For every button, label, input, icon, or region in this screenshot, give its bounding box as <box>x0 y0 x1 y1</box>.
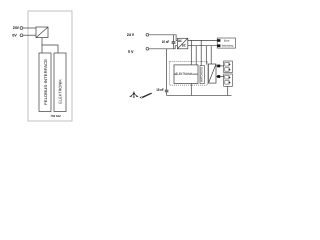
wire drop to electronics 2 <box>195 46 197 65</box>
svg-text:10 nF: 10 nF <box>156 88 164 92</box>
wire to data contact B <box>216 76 224 78</box>
terminal 24V <box>20 27 23 30</box>
data contact B <box>217 75 220 78</box>
wire 0V to supply <box>23 34 36 36</box>
data coupling box A <box>224 61 233 73</box>
svg-text:FELDBUS-INTERFACE: FELDBUS-INTERFACE <box>43 58 48 104</box>
svg-text:Weiterleitung: Weiterleitung <box>222 44 234 47</box>
power jumper contact box <box>217 38 235 48</box>
svg-text:750 612: 750 612 <box>50 114 61 118</box>
wire drop 4 <box>205 46 207 65</box>
capacitor C1 10nF between rails <box>172 35 176 49</box>
power supply unit U1 <box>36 27 48 38</box>
data contact A <box>217 65 220 68</box>
system DC/DC converter U3 <box>209 64 217 83</box>
svg-text:DC: DC <box>178 39 182 43</box>
wire drop to system converter <box>210 46 212 64</box>
power contact 0V <box>217 44 220 47</box>
watchdog block <box>200 66 204 84</box>
carrier rail symbol <box>140 93 153 99</box>
electronics dashed enclosure <box>170 61 208 85</box>
wire drop to electronics 1 <box>190 40 192 65</box>
terminal 0 V <box>146 47 149 50</box>
terminal 24 V <box>146 33 149 36</box>
earth ground symbol <box>130 91 139 97</box>
wire to data contact A <box>216 65 224 67</box>
svg-text:10 nF: 10 nF <box>162 40 170 44</box>
svg-text:ELEKTRONIK: ELEKTRONIK <box>57 79 62 104</box>
svg-text:24V: 24V <box>13 26 20 30</box>
wire electronics to earth rail <box>190 84 192 96</box>
electronics block <box>54 53 66 112</box>
capacitor C2 10nF to earth <box>165 49 169 96</box>
wire 24V bus to power contact <box>188 39 218 41</box>
svg-text:0 V: 0 V <box>128 49 134 54</box>
svg-text:WATCHDOG: WATCHDOG <box>200 67 203 82</box>
wire 0V bus to power contact <box>188 45 218 47</box>
earth rail <box>167 95 232 97</box>
wire drop to watchdog <box>200 40 202 65</box>
wire 24V rail <box>149 35 178 41</box>
svg-text:0V: 0V <box>12 33 17 37</box>
DC/DC converter U2 <box>177 38 187 49</box>
electronics block <box>174 65 198 84</box>
terminal 0V <box>20 34 23 37</box>
wire branch to electronics <box>42 45 58 53</box>
wire 0V rail <box>149 46 178 49</box>
power contact 24V <box>217 39 220 42</box>
data coupling box B <box>224 74 233 86</box>
svg-text:ELEKTRONIK: ELEKTRONIK <box>176 72 194 76</box>
fieldbus interface block <box>39 53 51 112</box>
wire supply output down <box>41 38 43 53</box>
svg-text:DC: DC <box>182 43 186 47</box>
svg-text:Bus-: Bus- <box>224 40 231 43</box>
module outline frame <box>28 11 72 121</box>
wire 24V to supply <box>23 27 36 29</box>
svg-text:24 V: 24 V <box>127 32 135 37</box>
wire data box to earth rail <box>227 86 229 95</box>
